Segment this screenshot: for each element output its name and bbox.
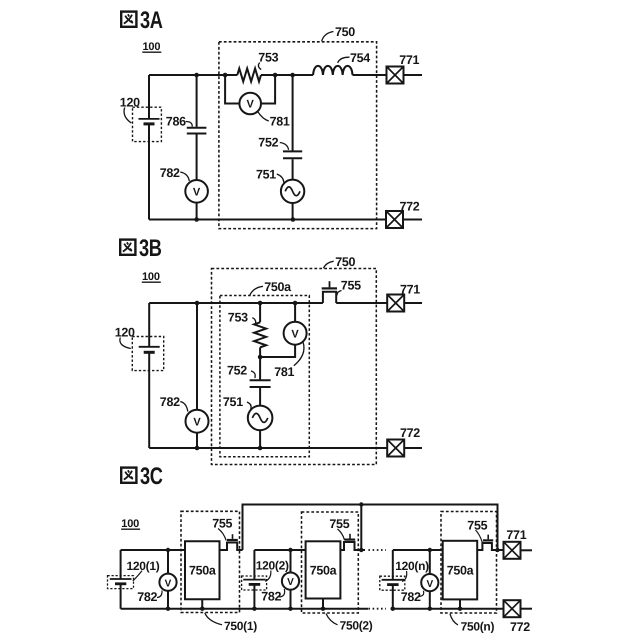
svg-text:782: 782 — [137, 590, 157, 604]
svg-text:755: 755 — [212, 517, 232, 531]
svg-text:751: 751 — [256, 167, 276, 181]
wire block output stub 2 — [322, 599, 324, 609]
svg-text:754: 754 — [350, 51, 370, 65]
svg-text:771: 771 — [506, 528, 526, 542]
svg-text:771: 771 — [399, 53, 419, 67]
wire battery branch 2 — [253, 550, 255, 609]
battery 120 — [139, 118, 160, 120]
junction dots 3B — [195, 301, 298, 451]
battery 120 dashed box — [132, 337, 163, 371]
svg-text:V: V — [165, 578, 172, 589]
wire block output stub 1 — [201, 599, 203, 608]
bus riser block2 — [360, 505, 362, 551]
wire top rail right — [353, 74, 387, 76]
svg-text:781: 781 — [274, 365, 294, 379]
svg-text:755: 755 — [467, 518, 487, 532]
wire battery branch n — [392, 550, 394, 609]
dashed box 750 — [219, 42, 377, 229]
svg-text:755: 755 — [329, 517, 349, 531]
wire top rail left — [149, 74, 237, 76]
svg-text:781: 781 — [270, 114, 290, 128]
battery 120 dashed box — [133, 107, 162, 141]
svg-text:750a: 750a — [447, 564, 475, 578]
svg-text:755: 755 — [341, 278, 361, 292]
wire — [259, 430, 261, 448]
dashed box 750 — [212, 269, 377, 465]
svg-text:750: 750 — [335, 255, 355, 269]
battery 120 — [139, 346, 160, 348]
title 図3B — [120, 235, 161, 262]
svg-text:772: 772 — [400, 426, 420, 440]
resistor 753 — [237, 69, 261, 82]
title 図3C — [121, 463, 162, 490]
wire bottom rail 3C — [121, 608, 504, 610]
voltmeter 782 — [186, 410, 209, 433]
svg-text:V: V — [426, 579, 433, 590]
voltmeter 781 — [284, 322, 307, 345]
capacitor 752 branch — [292, 75, 294, 180]
svg-text:771: 771 — [400, 282, 420, 296]
svg-text:753: 753 — [258, 51, 278, 65]
svg-text:753: 753 — [228, 310, 248, 324]
svg-text:750(n): 750(n) — [461, 620, 495, 634]
dashed box 750(1) — [181, 511, 240, 612]
wire capacitor branch — [196, 75, 198, 180]
terminal 771 — [387, 67, 404, 84]
svg-text:750(1): 750(1) — [224, 619, 257, 633]
wire left branch — [148, 303, 150, 448]
svg-text:V: V — [287, 577, 294, 588]
svg-text:100: 100 — [143, 41, 161, 53]
voltmeter 782 — [185, 180, 208, 203]
battery 120(n) — [382, 579, 405, 581]
svg-text:752: 752 — [258, 135, 278, 149]
block box 750a (n) — [443, 541, 478, 600]
dashed box 750a — [220, 296, 309, 457]
terminal 771 — [387, 295, 404, 312]
voltmeter 782 branch n — [429, 550, 431, 609]
wire — [292, 203, 294, 220]
AC source 751 — [281, 180, 304, 203]
wire bottom rail — [149, 219, 386, 221]
svg-text:100: 100 — [142, 271, 160, 283]
voltmeter 782 — [159, 574, 176, 591]
svg-text:V: V — [291, 328, 299, 340]
dashed box 750(2) — [302, 512, 359, 613]
svg-text:120(n): 120(n) — [395, 559, 429, 573]
svg-text:3B: 3B — [139, 235, 162, 262]
svg-text:750: 750 — [335, 25, 355, 39]
top bus wire — [243, 505, 498, 551]
svg-text:752: 752 — [227, 364, 247, 378]
battery dashed box 2 — [242, 576, 267, 590]
terminal 772 — [504, 600, 521, 617]
switch 755 (2) — [340, 542, 365, 550]
wire bottom rail — [149, 447, 387, 449]
dotted continuation wires — [368, 549, 386, 551]
dashed box 750(n) — [441, 512, 497, 614]
svg-text:750(2): 750(2) — [340, 619, 373, 633]
switch 755 (n) — [477, 543, 503, 550]
svg-text:782: 782 — [160, 395, 180, 409]
wire top rail left — [149, 302, 323, 304]
svg-text:750a: 750a — [264, 280, 292, 294]
inductor 754 — [313, 66, 352, 75]
voltmeter U781 — [239, 93, 261, 115]
svg-text:120: 120 — [115, 326, 135, 340]
wire top rail mid — [261, 74, 313, 76]
svg-text:782: 782 — [160, 166, 180, 180]
battery dashed box n — [380, 576, 405, 590]
terminal 771 — [504, 542, 521, 559]
wire left branch — [148, 75, 150, 220]
junction dots 3C — [166, 502, 500, 611]
AC source 751 — [248, 406, 273, 431]
svg-text:100: 100 — [121, 518, 139, 530]
svg-text:750a: 750a — [189, 564, 217, 578]
svg-text:786: 786 — [166, 115, 186, 129]
junction dots 3A — [194, 73, 295, 222]
svg-text:782: 782 — [261, 590, 281, 604]
voltmeter 782 — [282, 573, 299, 590]
svg-text:772: 772 — [400, 199, 420, 213]
resistor 753 — [254, 322, 266, 347]
svg-text:782: 782 — [401, 590, 421, 604]
voltmeter 782 branch 1 — [167, 550, 169, 609]
capacitor 786 — [187, 128, 207, 134]
svg-text:772: 772 — [510, 620, 530, 634]
switch 755 — [323, 292, 336, 303]
wire battery branch 1 — [120, 550, 122, 609]
voltmeter 782 — [421, 574, 438, 591]
svg-text:750a: 750a — [310, 564, 338, 578]
svg-text:3A: 3A — [140, 7, 163, 34]
svg-text:120(2): 120(2) — [256, 559, 289, 573]
wire block output stub n — [459, 599, 461, 608]
svg-text:V: V — [193, 416, 201, 428]
svg-text:3C: 3C — [140, 463, 163, 490]
battery 120(1) — [110, 578, 132, 580]
capacitor 752 — [283, 151, 302, 158]
svg-text:120: 120 — [120, 96, 140, 110]
battery 120(2) — [243, 579, 266, 581]
block box 750a (1) — [185, 541, 220, 599]
wire input rail 2 — [254, 549, 305, 551]
resistor 753 branch — [259, 303, 261, 357]
battery dashed box 1 — [108, 576, 134, 589]
wire input rail n — [393, 549, 443, 551]
voltmeter 782 branch — [196, 303, 198, 448]
voltmeter 781 branch — [260, 303, 295, 357]
svg-text:120(1): 120(1) — [127, 559, 160, 573]
svg-text:751: 751 — [223, 395, 243, 409]
capacitor 752 — [259, 357, 261, 406]
switch 755 (1) — [220, 543, 243, 551]
svg-text:V: V — [193, 187, 201, 199]
title 図3A — [121, 7, 162, 34]
voltmeter 781 branch — [225, 75, 275, 104]
terminal 772 — [386, 211, 403, 228]
svg-text:V: V — [247, 99, 255, 111]
terminal 772 — [387, 440, 404, 457]
wire — [196, 203, 198, 220]
block box 750a (2) — [306, 541, 341, 598]
wire input rail 1 — [121, 549, 185, 551]
voltmeter 782 branch 2 — [290, 550, 292, 609]
wire top rail right — [336, 302, 387, 304]
